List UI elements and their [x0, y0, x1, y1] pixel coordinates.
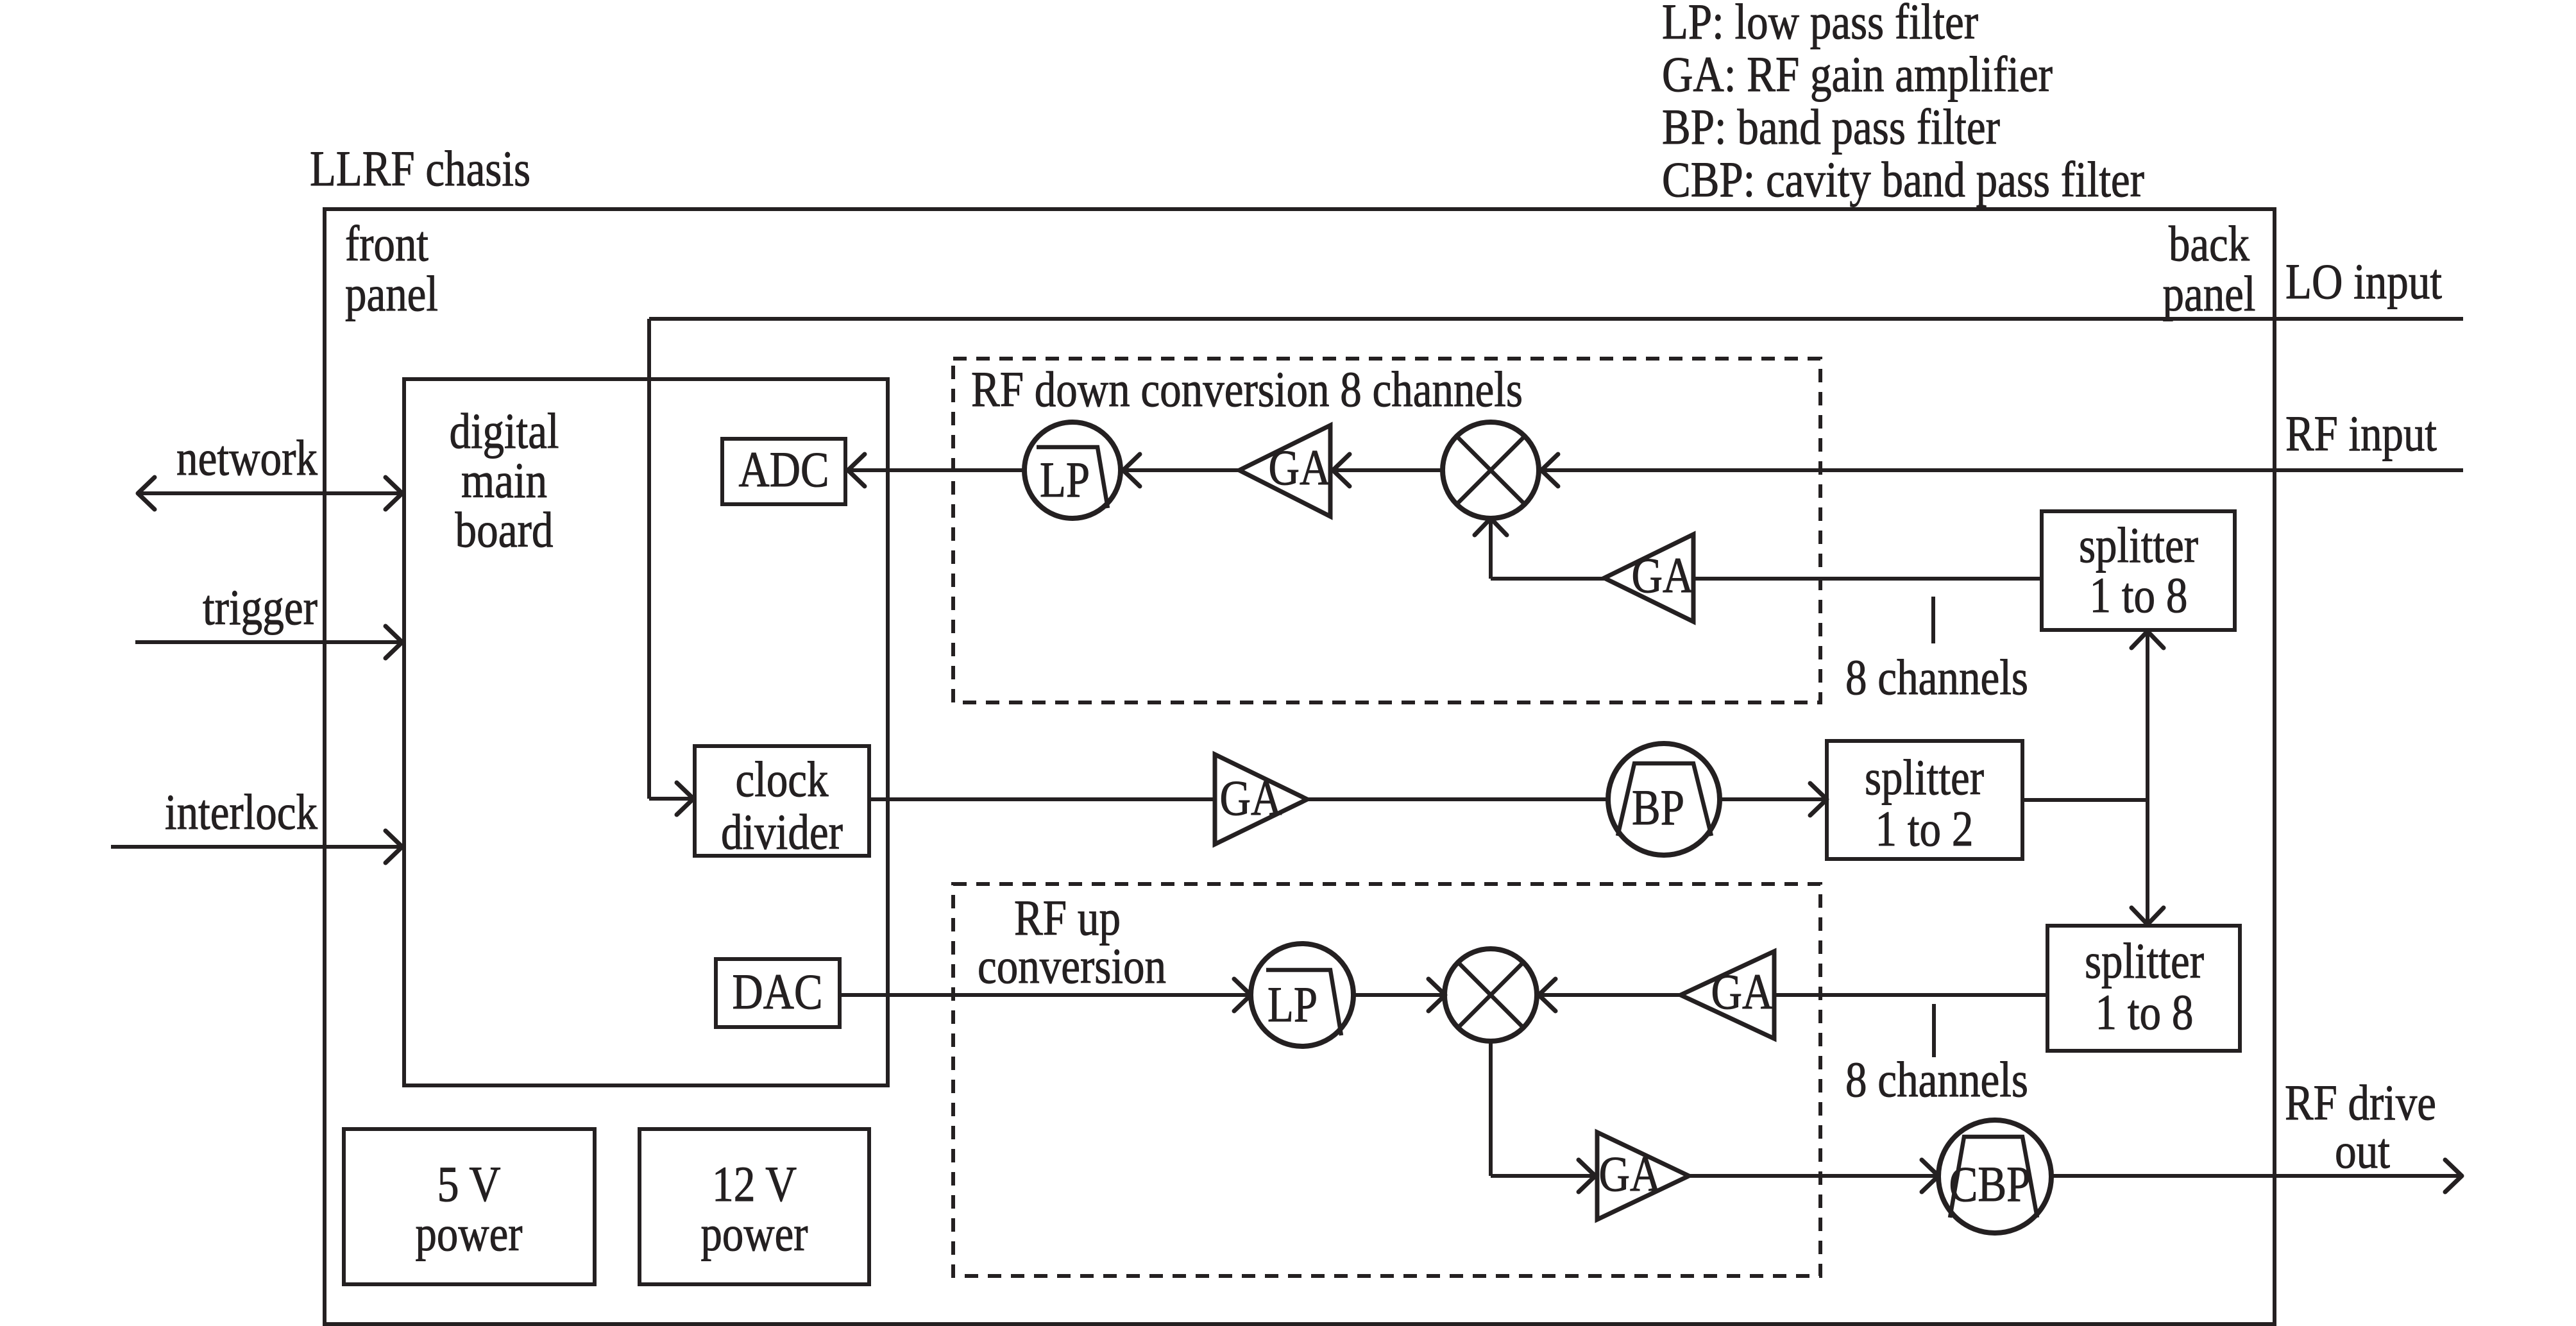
svg-text:RF down conversion 8 channels: RF down conversion 8 channels — [971, 361, 1523, 417]
svg-text:1 to 8: 1 to 8 — [2090, 567, 2188, 623]
svg-text:CBP: cavity band pass filter: CBP: cavity band pass filter — [1662, 151, 2144, 207]
svg-text:GA: GA — [1632, 547, 1694, 603]
svg-text:BP: band pass filter: BP: band pass filter — [1662, 99, 2000, 155]
svg-text:GA: GA — [1220, 770, 1282, 826]
svg-text:panel: panel — [345, 266, 438, 321]
svg-text:front: front — [345, 216, 428, 271]
svg-text:network: network — [176, 430, 318, 486]
svg-text:CBP: CBP — [1949, 1156, 2031, 1212]
svg-text:RF up: RF up — [1014, 890, 1121, 946]
svg-text:1 to 8: 1 to 8 — [2096, 984, 2194, 1040]
svg-text:trigger: trigger — [203, 579, 318, 635]
svg-text:1 to 2: 1 to 2 — [1876, 801, 1974, 856]
svg-text:RF drive: RF drive — [2285, 1075, 2436, 1130]
svg-text:conversion: conversion — [978, 938, 1166, 994]
svg-text:power: power — [701, 1205, 808, 1261]
svg-text:LP: LP — [1267, 976, 1318, 1032]
svg-text:8 channels: 8 channels — [1845, 649, 2028, 705]
svg-text:RF input: RF input — [2285, 405, 2437, 461]
svg-text:power: power — [416, 1205, 523, 1261]
svg-text:board: board — [455, 502, 554, 557]
svg-text:8 channels: 8 channels — [1845, 1051, 2028, 1107]
svg-text:BP: BP — [1632, 779, 1684, 835]
svg-text:digital: digital — [450, 403, 559, 459]
svg-text:main: main — [461, 452, 547, 508]
svg-text:LO input: LO input — [2285, 253, 2442, 309]
svg-text:splitter: splitter — [1865, 749, 1984, 805]
svg-text:DAC: DAC — [733, 964, 823, 1019]
svg-text:LP: LP — [1040, 452, 1090, 507]
svg-text:clock: clock — [736, 751, 829, 807]
svg-text:splitter: splitter — [2079, 517, 2198, 573]
svg-text:GA: RF gain amplifier: GA: RF gain amplifier — [1662, 46, 2053, 102]
svg-text:panel: panel — [2163, 266, 2256, 321]
svg-text:splitter: splitter — [2085, 933, 2204, 989]
svg-text:divider: divider — [721, 804, 843, 860]
svg-text:out: out — [2335, 1123, 2390, 1178]
svg-text:interlock: interlock — [165, 784, 318, 840]
svg-text:LP: low pass filter: LP: low pass filter — [1662, 0, 1978, 49]
svg-text:5 V: 5 V — [437, 1156, 501, 1212]
svg-text:GA: GA — [1711, 964, 1774, 1019]
svg-text:12 V: 12 V — [712, 1156, 797, 1212]
svg-text:GA: GA — [1269, 439, 1331, 495]
svg-text:ADC: ADC — [739, 441, 829, 497]
svg-text:back: back — [2169, 216, 2250, 271]
svg-text:GA: GA — [1599, 1146, 1661, 1202]
svg-text:LLRF chasis: LLRF chasis — [310, 140, 530, 196]
